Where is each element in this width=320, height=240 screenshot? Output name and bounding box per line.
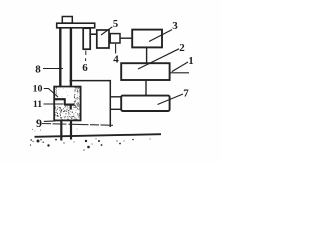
drill step connector: [64, 98, 66, 104]
leader 10: [44, 89, 58, 98]
leader 6 dashed: [85, 51, 87, 56]
borehole channel: [57, 87, 74, 106]
svg-text:4: 4: [113, 54, 119, 66]
svg-text:1: 1: [188, 56, 193, 67]
leader 7: [158, 94, 184, 105]
svg-text:9: 9: [36, 116, 42, 130]
box 7: [121, 96, 169, 111]
sensor cable from mast to box 7: [70, 81, 111, 127]
svg-text:8: 8: [35, 63, 41, 75]
leader 2: [138, 49, 179, 69]
speck row above ground line: [32, 129, 77, 132]
input tab upper edge on box 7: [110, 96, 121, 98]
drill bit stub: [70, 105, 72, 110]
leader 1 horizontal: [171, 72, 190, 74]
mast crossbar: [57, 23, 95, 28]
leader 9: [44, 120, 56, 123]
box 3: [132, 30, 162, 48]
leader 11: [44, 103, 64, 105]
box 5: [97, 30, 109, 48]
svg-text:11: 11: [33, 99, 42, 110]
leader 8: [43, 68, 63, 70]
wire box2 to box7: [145, 80, 147, 96]
svg-text:5: 5: [113, 19, 118, 30]
input tab lower edge on box 7: [110, 108, 121, 110]
svg-text:7: 7: [183, 88, 189, 100]
drill rod 6: [83, 28, 90, 49]
wire box4 to box3: [120, 37, 132, 39]
mast cap: [62, 17, 72, 24]
svg-text:3: 3: [172, 20, 178, 32]
drill step upper bar: [55, 98, 66, 100]
drill step lower bar: [64, 103, 75, 105]
leader 5: [101, 27, 112, 35]
upper ground line: [42, 124, 113, 126]
mast left leg: [59, 28, 61, 99]
wire box3 to box2: [146, 47, 148, 63]
soil block 10: [54, 87, 80, 121]
mast right leg: [70, 28, 72, 97]
svg-text:10: 10: [33, 84, 43, 95]
leader 4: [115, 44, 117, 54]
leader 3: [149, 30, 172, 42]
box 4: [110, 34, 120, 43]
svg-text:6: 6: [82, 62, 88, 74]
box 2: [121, 63, 169, 80]
rod below soil block left: [60, 121, 62, 141]
leader 1 diagonal: [172, 62, 188, 72]
svg-text:2: 2: [179, 42, 185, 54]
rod below soil block right: [70, 121, 72, 140]
coupling wire rod to box 5: [90, 33, 97, 35]
soil dots below ground: [30, 138, 151, 150]
ground surface line: [35, 134, 162, 137]
